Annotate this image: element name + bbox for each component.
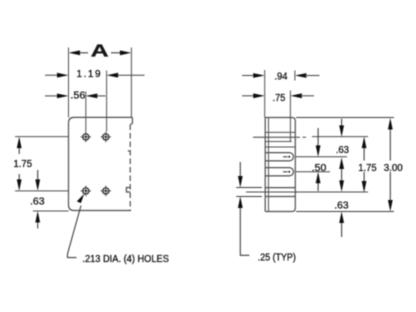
extension line left edge (A dim): [68, 48, 70, 118]
right view inner left line: [268, 118, 270, 212]
hole top-right: [101, 132, 111, 142]
svg-text:.63: .63: [336, 145, 350, 156]
hole bottom-left: [81, 186, 91, 196]
dimension .63 (right bottom): [334, 200, 349, 237]
right view step line 3: [265, 146, 295, 148]
svg-text:3.00: 3.00: [384, 163, 403, 174]
left view right edge nib 1: [128, 150, 130, 152]
extension line body bottom left: [33, 210, 69, 212]
svg-text:A: A: [91, 40, 110, 60]
extension line left hole column: [85, 92, 87, 132]
svg-text:.63: .63: [334, 200, 349, 211]
svg-text:1.75: 1.75: [358, 163, 377, 174]
hole top-left: [81, 132, 91, 142]
terminal pin 2: [265, 168, 293, 176]
dimension .25 (TYP): [238, 162, 296, 264]
dimension A: [69, 40, 132, 60]
dimension 1.75 (left): [14, 137, 33, 191]
right view body outline: [265, 118, 295, 212]
dimension 1.75 (right): [358, 137, 377, 193]
extension line right hole column: [106, 71, 108, 132]
hole bottom-right: [101, 186, 111, 196]
dimension .94: [242, 70, 320, 118]
dimension .63 (left bottom): [30, 170, 45, 229]
leader to hole note: [68, 194, 85, 258]
terminal pin 1: [265, 153, 293, 161]
ext line pin2 center: [296, 171, 330, 173]
right view flange face (outer left edge): [264, 118, 266, 212]
ext line gap top (.25): [236, 187, 262, 189]
svg-text:.94: .94: [274, 71, 288, 82]
left view right edge solid top segment: [130, 117, 132, 124]
ext line gap bottom (.25): [236, 196, 262, 198]
right view lower step line: [265, 187, 295, 189]
extension line right edge (A dim): [130, 48, 132, 118]
svg-text:.50: .50: [312, 163, 327, 174]
svg-text:.213 DIA. (4) HOLES: .213 DIA. (4) HOLES: [82, 254, 169, 265]
dimension 1.19: [45, 69, 145, 80]
dimension .56: [45, 91, 106, 102]
dimension 3.00: [384, 118, 403, 212]
right view step line 2: [265, 141, 292, 143]
extension line bottom hole row left: [15, 190, 69, 192]
svg-text:.56: .56: [70, 91, 85, 102]
left view right edge nib 2: [126, 188, 130, 193]
ext line pin1 center: [296, 156, 347, 158]
dimension .75: [242, 91, 314, 142]
right view bottom block top line: [265, 196, 295, 198]
svg-text:1.19: 1.19: [77, 69, 101, 80]
left view body outline: [69, 117, 133, 210]
dimension .50: [312, 128, 327, 191]
svg-text:1.75: 1.75: [14, 159, 33, 170]
ext line bottom hole row: [246, 191, 368, 193]
right view step line 1: [265, 131, 295, 133]
svg-text:.75: .75: [273, 93, 286, 104]
extension line top hole row left: [15, 136, 69, 138]
ext line top hole row through side view: [253, 136, 295, 138]
dimension .63 (right top): [336, 119, 350, 192]
svg-text:.25 (TYP): .25 (TYP): [258, 253, 296, 264]
ext line body bottom right: [296, 211, 394, 213]
svg-text:.63: .63: [30, 197, 45, 208]
ext line body top right: [296, 117, 394, 119]
left view right edge hidden dashed line: [129, 125, 131, 211]
